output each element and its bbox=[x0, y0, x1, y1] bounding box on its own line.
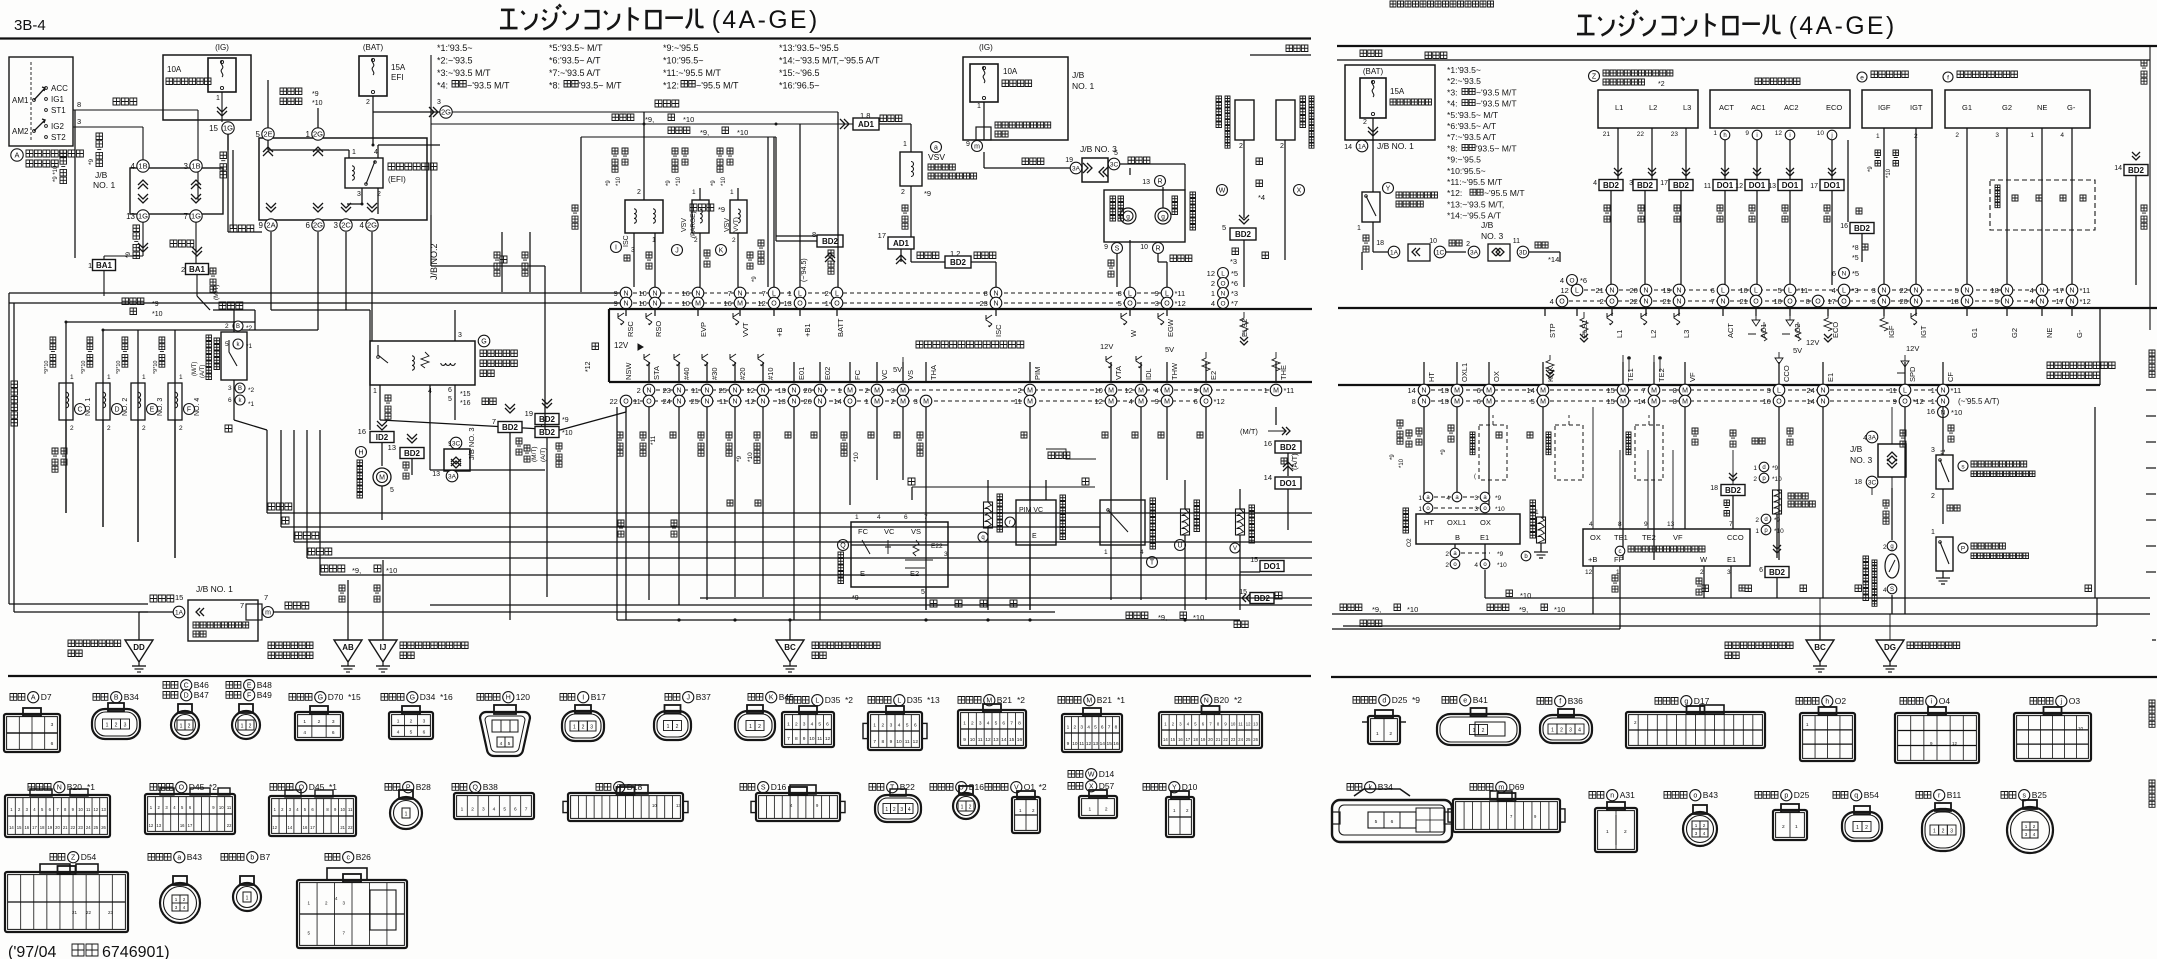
svg-text:B16: B16 bbox=[969, 782, 984, 792]
svg-text:10: 10 bbox=[78, 807, 83, 812]
svg-text:Q: Q bbox=[840, 543, 846, 550]
svg-text:4: 4 bbox=[1129, 397, 1133, 406]
svg-text:2: 2 bbox=[758, 724, 761, 730]
svg-text:*9: *9 bbox=[1390, 454, 1396, 460]
wire AD1 to VSV bbox=[880, 115, 902, 122]
distributor bbox=[1943, 72, 1953, 82]
svg-text:e: e bbox=[1860, 74, 1864, 81]
svg-text:N: N bbox=[1676, 288, 1681, 295]
svg-text:OXL1: OXL1 bbox=[1460, 363, 1469, 382]
svg-text:12: 12 bbox=[1952, 741, 1958, 746]
svg-text:*10: *10 bbox=[1497, 562, 1507, 569]
svg-text:*11: *11 bbox=[1175, 289, 1186, 298]
svg-text:10: 10 bbox=[340, 807, 345, 812]
svg-text:3: 3 bbox=[184, 162, 189, 171]
svg-text:1: 1 bbox=[855, 514, 859, 521]
svg-text:23: 23 bbox=[979, 299, 987, 308]
svg-text:E01: E01 bbox=[797, 367, 806, 380]
svg-text:S: S bbox=[1890, 587, 1894, 593]
check engine warning box bbox=[1104, 190, 1185, 242]
svg-text:9: 9 bbox=[1155, 289, 1159, 298]
svg-text:*3: *3 bbox=[1231, 289, 1238, 298]
svg-text:14: 14 bbox=[1526, 386, 1534, 395]
svg-text:*9: *9 bbox=[606, 180, 612, 186]
svg-text:*10: *10 bbox=[1772, 476, 1782, 483]
svg-text:NO. 3: NO. 3 bbox=[1481, 231, 1503, 241]
svg-text:IG2: IG2 bbox=[51, 122, 64, 131]
connector M B21 *2 bbox=[983, 704, 1001, 712]
svg-text:*16: *16 bbox=[460, 400, 471, 407]
svg-text:4: 4 bbox=[2033, 832, 2036, 837]
svg-text:25: 25 bbox=[718, 386, 726, 395]
svg-text:M: M bbox=[1108, 388, 1114, 395]
svg-text:N: N bbox=[1204, 698, 1209, 705]
svg-text:20: 20 bbox=[1208, 737, 1213, 742]
svg-text:1B: 1B bbox=[138, 162, 147, 171]
svg-text:THW: THW bbox=[1170, 362, 1179, 380]
svg-text:13: 13 bbox=[1253, 722, 1258, 727]
svg-text:~'95.5 M/T: ~'95.5 M/T bbox=[1484, 188, 1525, 198]
svg-text:*10: *10 bbox=[616, 176, 622, 186]
air flow meter box Q bbox=[851, 522, 948, 587]
svg-text:8: 8 bbox=[984, 289, 988, 298]
svg-text:24: 24 bbox=[662, 397, 670, 406]
water temp sensor bbox=[1181, 509, 1190, 535]
main relay EFI box bbox=[345, 158, 383, 188]
svg-text:N: N bbox=[1421, 399, 1426, 406]
connector i O4 label bbox=[1900, 698, 1923, 705]
svg-text:a: a bbox=[177, 855, 181, 862]
svg-text:N: N bbox=[646, 388, 651, 395]
svg-text:10: 10 bbox=[638, 299, 646, 308]
svg-text:E2: E2 bbox=[1209, 371, 1218, 380]
svg-text:(BAT): (BAT) bbox=[1363, 67, 1384, 76]
J/B No.1 box bbox=[130, 168, 223, 214]
svg-text:L: L bbox=[897, 698, 901, 705]
svg-text:4: 4 bbox=[987, 720, 990, 726]
svg-text:8: 8 bbox=[1412, 397, 1416, 406]
svg-text:5: 5 bbox=[1114, 150, 1118, 157]
svg-text:13: 13 bbox=[432, 471, 440, 478]
svg-text:BD2: BD2 bbox=[1280, 443, 1297, 452]
svg-text:3: 3 bbox=[124, 723, 127, 729]
svg-text:21: 21 bbox=[1603, 131, 1611, 138]
left title underline bbox=[0, 37, 1311, 39]
svg-text:2: 2 bbox=[825, 289, 829, 298]
svg-text:4: 4 bbox=[2060, 132, 2064, 139]
svg-text:J/B NO. 1: J/B NO. 1 bbox=[1377, 141, 1414, 151]
connector J B37 label bbox=[665, 694, 680, 701]
svg-text:CCO: CCO bbox=[1782, 365, 1791, 382]
svg-text:NO. 1: NO. 1 bbox=[93, 180, 115, 190]
svg-text:15: 15 bbox=[1171, 737, 1176, 742]
svg-text:B47: B47 bbox=[194, 690, 209, 700]
svg-text:VS: VS bbox=[911, 527, 921, 536]
svg-text:O: O bbox=[1559, 299, 1565, 306]
svg-text:13: 13 bbox=[1667, 521, 1675, 528]
svg-text:17: 17 bbox=[2055, 286, 2063, 295]
svg-text:DD: DD bbox=[133, 643, 145, 652]
svg-text:6: 6 bbox=[306, 221, 311, 230]
svg-text:*1:'93.5~: *1:'93.5~ bbox=[437, 43, 473, 53]
svg-text:4: 4 bbox=[131, 162, 136, 171]
svg-text:AB: AB bbox=[342, 643, 354, 652]
svg-text:N: N bbox=[2069, 288, 2074, 295]
diode W labels bbox=[1217, 185, 1228, 196]
svg-text:DO1: DO1 bbox=[1782, 181, 1799, 190]
svg-text:2: 2 bbox=[901, 189, 905, 196]
svg-text:5: 5 bbox=[508, 741, 511, 747]
svg-text:13: 13 bbox=[1093, 741, 1099, 747]
svg-text:M: M bbox=[1138, 388, 1144, 395]
upper pin chain row1 right bbox=[1577, 289, 2072, 291]
kuro-aka drop x581 bbox=[580, 137, 582, 292]
relay G label bbox=[478, 335, 490, 347]
svg-text:*14: *14 bbox=[1548, 255, 1559, 264]
svg-text:M: M bbox=[1486, 399, 1492, 406]
CCO diode bbox=[1775, 352, 1783, 364]
svg-text:1: 1 bbox=[1418, 495, 1422, 502]
svg-text:6: 6 bbox=[914, 722, 917, 728]
svg-text:19: 19 bbox=[1065, 157, 1073, 164]
VSV VVT valve (K) bbox=[730, 200, 747, 233]
svg-text:(4A-GE): (4A-GE) bbox=[712, 7, 820, 34]
svg-text:AC1: AC1 bbox=[1759, 323, 1768, 338]
svg-text:D70: D70 bbox=[328, 692, 344, 702]
svg-text:IDL: IDL bbox=[1144, 368, 1153, 380]
svg-text:d: d bbox=[1762, 465, 1765, 471]
right ECU border drop to bus bbox=[2094, 407, 2096, 598]
svg-text:O: O bbox=[1569, 277, 1574, 284]
svg-text:2: 2 bbox=[1883, 544, 1887, 551]
svg-text:2: 2 bbox=[249, 724, 252, 730]
svg-text:3: 3 bbox=[979, 720, 982, 726]
svg-text:17: 17 bbox=[1810, 183, 1818, 190]
wires absorber to chain bbox=[1610, 191, 1612, 285]
svg-text:22: 22 bbox=[1637, 131, 1645, 138]
svg-text:3: 3 bbox=[482, 807, 485, 813]
svg-text:4: 4 bbox=[1589, 521, 1593, 528]
svg-text:1: 1 bbox=[1376, 731, 1379, 737]
svg-text:N: N bbox=[791, 399, 796, 406]
svg-text:3: 3 bbox=[2025, 832, 2028, 837]
svg-text:*10:'95.5~: *10:'95.5~ bbox=[1447, 166, 1486, 176]
svg-text:*11: *11 bbox=[1951, 386, 1962, 395]
svg-text:3: 3 bbox=[590, 725, 593, 731]
J/B NO.1 stop lamp enclosure bbox=[1345, 65, 1435, 140]
svg-text:(EFI): (EFI) bbox=[388, 175, 406, 184]
svg-text:D54: D54 bbox=[81, 852, 97, 862]
throttle position sensor bbox=[1100, 500, 1145, 545]
svg-text:L1: L1 bbox=[1615, 103, 1623, 112]
connector C/D round bbox=[178, 704, 192, 713]
svg-text:6746901): 6746901) bbox=[102, 944, 170, 959]
svg-text:TE2: TE2 bbox=[1657, 368, 1666, 382]
svg-text:T: T bbox=[1150, 560, 1155, 567]
svg-text:*15: *15 bbox=[348, 692, 361, 702]
svg-text:4: 4 bbox=[1140, 549, 1144, 556]
svg-text:L: L bbox=[835, 291, 839, 298]
svg-text:VSV: VSV bbox=[724, 218, 731, 232]
circuit opening relay box bbox=[370, 341, 475, 385]
svg-text:3D: 3D bbox=[1519, 249, 1528, 256]
svg-text:AM1: AM1 bbox=[12, 96, 29, 105]
svg-text:ID2: ID2 bbox=[376, 433, 389, 442]
svg-text:3: 3 bbox=[51, 722, 54, 728]
svg-text:19: 19 bbox=[1662, 286, 1670, 295]
connector s B25 label bbox=[2001, 792, 2016, 799]
svg-text:m: m bbox=[265, 610, 271, 617]
svg-text:12: 12 bbox=[1086, 741, 1092, 747]
ground AB left fender apron bbox=[268, 642, 313, 649]
svg-text:B46: B46 bbox=[194, 680, 209, 690]
svg-text:11: 11 bbox=[719, 397, 727, 406]
svg-text:B25: B25 bbox=[2032, 790, 2047, 800]
svg-text:(~'94.5): (~'94.5) bbox=[801, 258, 808, 282]
svg-text:2: 2 bbox=[865, 386, 869, 395]
svg-text:2G: 2G bbox=[313, 221, 323, 230]
svg-text:4: 4 bbox=[1087, 724, 1090, 730]
svg-text:N: N bbox=[1881, 288, 1886, 295]
svg-text:2G: 2G bbox=[367, 221, 377, 230]
svg-text:S: S bbox=[761, 785, 766, 792]
svg-text:1: 1 bbox=[730, 189, 734, 196]
svg-text:13: 13 bbox=[156, 823, 161, 828]
svg-text:2: 2 bbox=[1389, 731, 1392, 737]
svg-text:11: 11 bbox=[817, 736, 822, 742]
svg-text:E: E bbox=[247, 683, 252, 690]
svg-text:L: L bbox=[1788, 288, 1792, 295]
svg-text:5: 5 bbox=[1955, 286, 1959, 295]
svg-text:7: 7 bbox=[525, 807, 528, 813]
svg-text:N: N bbox=[652, 291, 657, 298]
svg-text:I: I bbox=[582, 695, 584, 702]
svg-text:2: 2 bbox=[881, 722, 884, 728]
ECU misc inner symbols bbox=[1106, 356, 1112, 368]
svg-text:1: 1 bbox=[1931, 529, 1935, 536]
svg-text:1A: 1A bbox=[1358, 143, 1367, 150]
svg-text:2: 2 bbox=[1074, 724, 1077, 730]
svg-text:26: 26 bbox=[1253, 737, 1258, 742]
svg-text:N: N bbox=[817, 388, 822, 395]
right drop labels bbox=[1397, 420, 1403, 444]
ki labels bbox=[908, 478, 915, 485]
kuro *12 vertical label bbox=[592, 343, 599, 350]
svg-text:*11: *11 bbox=[1284, 386, 1295, 395]
svg-text:*2:~'93.5: *2:~'93.5 bbox=[437, 56, 473, 66]
svg-text:21: 21 bbox=[72, 910, 78, 915]
integration relay small box bbox=[976, 127, 991, 140]
svg-text:FP: FP bbox=[1614, 555, 1624, 564]
suction temp sensor bbox=[984, 502, 993, 528]
connector o B43 label bbox=[1664, 792, 1687, 799]
svg-text:2: 2 bbox=[188, 724, 191, 730]
svg-text:W: W bbox=[1088, 772, 1095, 779]
svg-text:D14: D14 bbox=[1099, 769, 1115, 779]
lower pin chain row1 right bbox=[1424, 389, 1943, 391]
svg-text:J/B: J/B bbox=[1850, 444, 1863, 454]
svg-text:M: M bbox=[1138, 399, 1144, 406]
switch arm AM1 bbox=[34, 87, 45, 100]
gather line to BC bbox=[617, 619, 1240, 621]
svg-text:e: e bbox=[1463, 698, 1467, 705]
svg-text:9: 9 bbox=[803, 736, 806, 742]
connector Z D54 label bbox=[50, 854, 65, 861]
wire relay pin1 from 2E bbox=[267, 140, 269, 150]
svg-text:2A: 2A bbox=[266, 221, 275, 230]
white-black drops mid bbox=[501, 245, 503, 292]
svg-text:O: O bbox=[1127, 301, 1133, 308]
bus left verticals bbox=[266, 430, 268, 513]
svg-text:*9: *9 bbox=[718, 205, 725, 214]
svg-text:4: 4 bbox=[1474, 562, 1478, 569]
svg-text:*10: *10 bbox=[312, 100, 323, 107]
wire kuro-daidai to 2A bbox=[230, 225, 254, 232]
svg-text:23: 23 bbox=[1671, 131, 1679, 138]
svg-text:E: E bbox=[150, 407, 155, 414]
air flow meter switch symbol bbox=[862, 540, 870, 554]
connector G D70 label bbox=[289, 694, 312, 701]
svg-text:1: 1 bbox=[1795, 824, 1798, 830]
svg-text:O: O bbox=[623, 399, 629, 406]
connector M B21 *1 bbox=[1083, 708, 1101, 716]
svg-text:N: N bbox=[704, 388, 709, 395]
svg-text:3: 3 bbox=[437, 99, 441, 106]
svg-text:*5: *5 bbox=[1852, 269, 1859, 278]
svg-text:1: 1 bbox=[303, 719, 306, 725]
svg-text:*10: *10 bbox=[1774, 528, 1784, 535]
svg-text:15: 15 bbox=[1106, 741, 1112, 747]
svg-text:O: O bbox=[1902, 399, 1908, 406]
svg-text:BD2: BD2 bbox=[404, 449, 421, 458]
connector d D25 label bbox=[1353, 697, 1376, 704]
connector L D35 *13 bbox=[886, 706, 904, 714]
svg-text:q: q bbox=[1854, 793, 1858, 800]
svg-text:9: 9 bbox=[963, 737, 966, 743]
svg-text:5: 5 bbox=[390, 487, 394, 494]
long wire ki horizontal bbox=[912, 486, 1095, 488]
svg-text:BA1: BA1 bbox=[189, 265, 206, 274]
svg-text:G: G bbox=[481, 339, 486, 346]
ECU right upper stubs bbox=[1544, 308, 1546, 316]
svg-text:13: 13 bbox=[388, 443, 396, 452]
svg-text:13: 13 bbox=[1768, 183, 1776, 190]
svg-text:3: 3 bbox=[1950, 829, 1953, 835]
svg-text:DO1: DO1 bbox=[1717, 181, 1734, 190]
svg-text:CCO: CCO bbox=[1727, 533, 1744, 542]
svg-text:N: N bbox=[676, 399, 681, 406]
svg-text:N: N bbox=[2039, 288, 2044, 295]
svg-text:(M/T): (M/T) bbox=[192, 362, 198, 376]
svg-text:#10: #10 bbox=[766, 367, 775, 380]
svg-text:M: M bbox=[1164, 399, 1170, 406]
svg-text:N: N bbox=[1940, 388, 1945, 395]
wire column x774 to chain 7L bbox=[773, 137, 775, 287]
svg-text:+B: +B bbox=[775, 328, 784, 337]
svg-text:14: 14 bbox=[1637, 397, 1645, 406]
label aka-kuro *9 kuro-daidai *10 bbox=[280, 88, 302, 95]
svg-text:*9: *9 bbox=[88, 158, 95, 165]
svg-text:FC: FC bbox=[853, 369, 862, 380]
svg-text:SPD: SPD bbox=[1908, 366, 1917, 382]
svg-text:18: 18 bbox=[1376, 240, 1384, 247]
svg-text:D35: D35 bbox=[825, 695, 841, 705]
svg-text:VVT: VVT bbox=[741, 322, 750, 337]
svg-text:M: M bbox=[1540, 399, 1546, 406]
wire from 7(1G) down to BA1-2 bbox=[195, 222, 197, 267]
svg-text:17: 17 bbox=[32, 825, 37, 830]
svg-text:22: 22 bbox=[86, 910, 92, 915]
svg-text:*6: *6 bbox=[1580, 276, 1587, 285]
svg-text:*11: *11 bbox=[2080, 286, 2091, 295]
svg-text:D34: D34 bbox=[420, 692, 436, 702]
svg-text:ACT: ACT bbox=[1719, 103, 1734, 112]
svg-text:L: L bbox=[798, 291, 802, 298]
svg-text:J: J bbox=[675, 248, 679, 255]
svg-text:1: 1 bbox=[1211, 289, 1215, 298]
connector S D16 label bbox=[740, 784, 755, 791]
svg-text:1: 1 bbox=[106, 723, 109, 729]
svg-text:N: N bbox=[1964, 299, 1969, 306]
wire from m-area down x1130 bbox=[1129, 168, 1131, 175]
svg-text:4: 4 bbox=[898, 722, 901, 728]
svg-text:2: 2 bbox=[1211, 279, 1215, 288]
svg-text:*13:'93.5~'95.5: *13:'93.5~'95.5 bbox=[779, 43, 839, 53]
svg-text:5: 5 bbox=[1531, 397, 1535, 406]
svg-text:15: 15 bbox=[209, 124, 218, 133]
svg-text:*9: *9 bbox=[312, 91, 319, 98]
connector Z D54 bbox=[40, 864, 70, 873]
connector P B28 bbox=[399, 790, 413, 799]
ignition switch box bbox=[9, 57, 73, 146]
svg-text:18: 18 bbox=[1854, 479, 1862, 486]
svg-text:11: 11 bbox=[1238, 722, 1243, 727]
svg-text:*10: *10 bbox=[1193, 613, 1204, 622]
svg-text:*9: *9 bbox=[1495, 495, 1502, 502]
svg-text:RSC: RSC bbox=[626, 321, 635, 337]
svg-text:E22: E22 bbox=[931, 543, 943, 550]
wires relay G bbox=[454, 310, 456, 341]
svg-text:T: T bbox=[890, 785, 895, 792]
svg-text:N: N bbox=[704, 399, 709, 406]
svg-text:17: 17 bbox=[310, 825, 315, 830]
svg-text:11: 11 bbox=[1513, 238, 1520, 245]
svg-text:VC: VC bbox=[884, 527, 895, 536]
svg-text:B: B bbox=[238, 386, 242, 392]
svg-text:12: 12 bbox=[94, 807, 99, 812]
svg-text:M: M bbox=[695, 301, 701, 308]
svg-text:10: 10 bbox=[1072, 741, 1078, 747]
svg-text:VC: VC bbox=[880, 369, 889, 380]
svg-text:*10: *10 bbox=[1886, 168, 1892, 178]
svg-text:16: 16 bbox=[180, 823, 185, 828]
wire 1A down-left chain bbox=[1361, 252, 1363, 270]
svg-text:23: 23 bbox=[662, 386, 670, 395]
svg-text:5V: 5V bbox=[1165, 345, 1174, 354]
svg-text:d: d bbox=[1764, 517, 1767, 523]
svg-text:M: M bbox=[923, 399, 929, 406]
svg-text:S: S bbox=[1115, 246, 1120, 253]
wires below check engine bbox=[1116, 254, 1118, 287]
svg-text:W: W bbox=[1129, 329, 1138, 337]
connector n A31 bbox=[1607, 802, 1625, 810]
svg-text:*10: *10 bbox=[1520, 591, 1531, 600]
svg-text:1: 1 bbox=[88, 261, 92, 270]
svg-text:O2: O2 bbox=[1406, 538, 1413, 547]
svg-text:8: 8 bbox=[812, 230, 816, 239]
svg-text:g: g bbox=[1126, 213, 1130, 220]
connector A D7 label bbox=[10, 694, 25, 701]
